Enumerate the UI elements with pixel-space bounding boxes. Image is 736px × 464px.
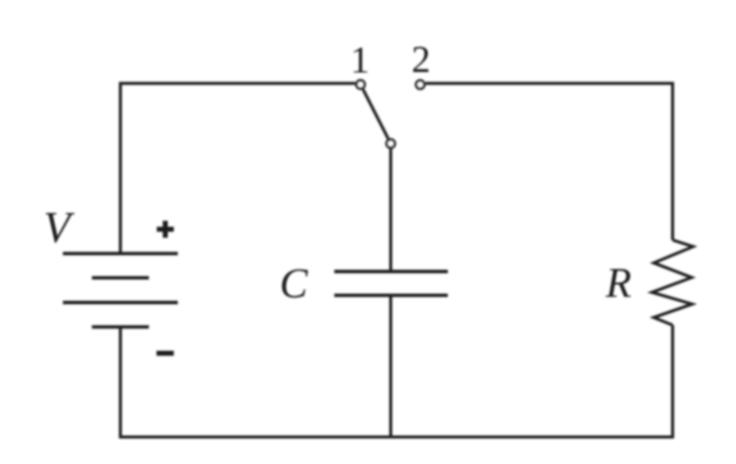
switch contact 2 terminal circle bbox=[416, 81, 424, 89]
wire switch pole to capacitor top bbox=[389, 149, 392, 271]
switch contact 1 terminal circle bbox=[356, 80, 364, 88]
capacitor C bottom plate bbox=[334, 294, 448, 297]
wire capacitor to bottom rail bbox=[389, 295, 392, 437]
battery plus sign bbox=[157, 221, 174, 238]
svg-text:2: 2 bbox=[412, 39, 431, 81]
resistor R zigzag bbox=[652, 240, 693, 325]
battery V plate 4 short negative bbox=[92, 325, 149, 328]
svg-text:V: V bbox=[44, 203, 76, 252]
svg-text:1: 1 bbox=[351, 40, 370, 82]
battery V plate 1 long positive bbox=[63, 252, 178, 255]
battery V plate 3 long bbox=[63, 301, 178, 304]
battery V plate 2 short bbox=[92, 276, 149, 279]
svg-text:R: R bbox=[605, 261, 632, 307]
switch SW1 arm (thrown between contact 1 and pole) bbox=[363, 89, 388, 138]
switch pole circle bbox=[387, 140, 395, 148]
battery minus sign bbox=[157, 351, 174, 356]
wire bottom rail bbox=[120, 325, 672, 437]
capacitor C top plate bbox=[334, 270, 448, 273]
wire top-left rail from battery top corner to switch contact 1 bbox=[120, 83, 355, 254]
svg-text:C: C bbox=[280, 262, 309, 308]
wire top-right rail from switch contact 2 to resistor top bbox=[426, 83, 673, 240]
